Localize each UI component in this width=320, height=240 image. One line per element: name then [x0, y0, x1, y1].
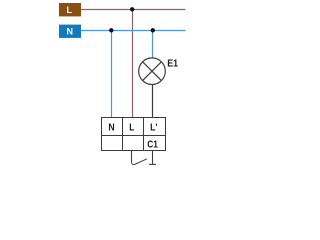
svg-text:L': L': [150, 123, 157, 134]
wire live horizontal: [81, 9, 186, 11]
switch blade: [132, 159, 148, 165]
terminal L (mains live): [59, 3, 81, 16]
svg-text:L: L: [129, 123, 134, 134]
svg-text:N: N: [108, 123, 114, 134]
wire lamp to device L': [152, 84, 154, 117]
svg-text:N: N: [66, 27, 73, 37]
svg-text:L: L: [67, 5, 73, 15]
device C1 terminal box: [102, 118, 166, 151]
svg-text:C1: C1: [147, 139, 158, 150]
terminal N (mains neutral): [59, 25, 81, 38]
lamp E1: [139, 58, 166, 85]
node junction on neutral wire to device: [109, 28, 113, 32]
wire neutral horizontal: [81, 30, 186, 32]
wire live vertical to device L: [132, 10, 134, 118]
node junction on neutral wire to lamp: [151, 28, 155, 32]
svg-text:E1: E1: [167, 59, 178, 70]
wire neutral vertical to lamp: [152, 31, 154, 59]
wire neutral vertical to device N: [111, 31, 113, 118]
switch pole from L: [131, 151, 133, 163]
node junction on live wire: [130, 7, 134, 11]
switch contact to L': [149, 151, 156, 165]
